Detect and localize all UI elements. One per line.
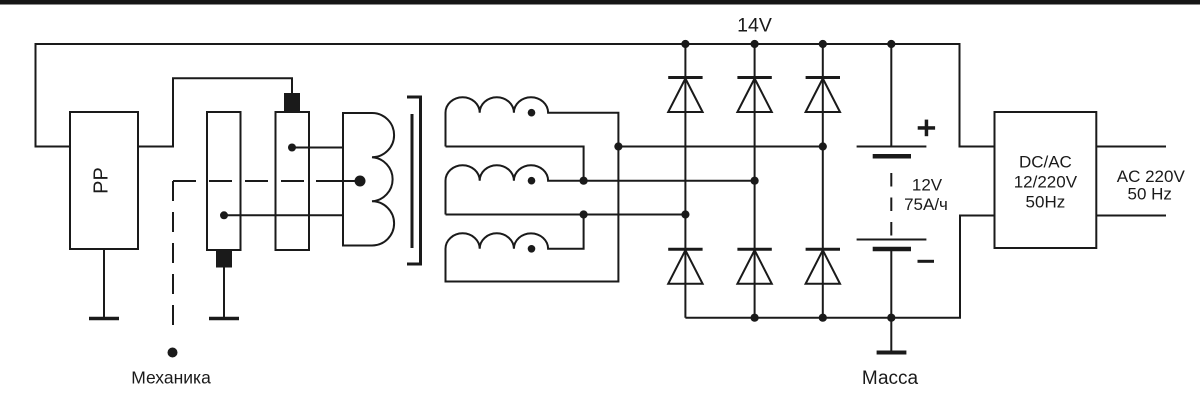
svg-text:50Hz: 50Hz	[1026, 192, 1066, 211]
wire brush B1 to ground	[223, 267, 225, 318]
minus sign	[918, 260, 935, 263]
svg-text:Масса: Масса	[862, 368, 919, 389]
diode VD4 lower	[668, 248, 702, 251]
wire AC output top	[1096, 146, 1166, 148]
wire rectifier column 2	[754, 44, 756, 318]
node L1 polarity dot	[528, 109, 536, 117]
core bar	[411, 114, 414, 248]
rotor field winding	[343, 113, 394, 246]
battery GB1 cell1 plate short	[873, 154, 911, 159]
svg-text:12/220V: 12/220V	[1014, 172, 1078, 191]
brush B1 bottom	[217, 250, 231, 267]
plus sign	[918, 120, 935, 137]
node mechanics dot	[168, 348, 178, 358]
diode VD3 upper	[806, 76, 840, 79]
node top rail battery	[887, 40, 895, 48]
diode VD5 lower	[737, 248, 771, 251]
node bottom rail battery	[887, 314, 895, 322]
battery GB1 cell2 plate long	[857, 239, 927, 241]
node top rail col1	[681, 40, 689, 48]
node bottom rail col2	[751, 314, 759, 322]
stator winding L2 with phase 2 line	[446, 165, 755, 214]
wire AC output bottom	[1096, 215, 1166, 217]
svg-text:75А/ч: 75А/ч	[904, 195, 948, 214]
node phase3 to col1	[681, 210, 689, 218]
core bracket	[407, 97, 421, 264]
wire rotor axis stub	[316, 180, 356, 182]
node phase1 to col3	[819, 142, 827, 150]
node slip ring 2 terminal	[288, 144, 296, 152]
node phase2 to col2	[751, 177, 759, 185]
border strip top	[0, 0, 1200, 5]
node L3 polarity dot	[528, 245, 536, 253]
svg-text:14V: 14V	[737, 15, 772, 37]
node rotor axis dot	[355, 176, 366, 187]
svg-text:AC 220V: AC 220V	[1117, 167, 1186, 186]
wire battery to chassis ground	[890, 318, 892, 351]
regulator box PP	[70, 112, 138, 249]
battery GB1 cell2 plate short	[873, 247, 911, 252]
svg-text:50 Hz: 50 Hz	[1127, 184, 1171, 203]
wire bottom rail	[685, 216, 994, 318]
node top rail col3	[819, 40, 827, 48]
ground Massa bar	[877, 351, 907, 355]
wire phase 3 line	[446, 214, 686, 216]
node bottom rail col3	[819, 314, 827, 322]
battery GB1 cell1 plate long	[857, 146, 927, 148]
diode VD1 upper	[668, 76, 702, 79]
node top rail col2	[751, 40, 759, 48]
svg-text:DC/AC: DC/AC	[1019, 152, 1072, 171]
wire PP to upper brush	[138, 78, 292, 146]
mechanical link dashed horizontal	[173, 180, 309, 182]
svg-text:12V: 12V	[912, 176, 943, 195]
wire slip ring 1 to rotor coil	[224, 214, 343, 216]
svg-text:РР: РР	[91, 167, 113, 194]
node slip ring 1 terminal	[220, 211, 228, 219]
wire rectifier column 1	[684, 44, 686, 318]
battery inter-cell dashed	[890, 173, 892, 240]
wire slip ring 2 to rotor coil	[292, 147, 343, 149]
ground brush B1	[209, 317, 239, 321]
wire battery top	[890, 44, 892, 147]
node phase3 junction	[580, 210, 588, 218]
wire rectifier column 3	[822, 44, 824, 318]
inverter box DC/AC	[995, 112, 1097, 248]
wire L1 bottom to phase2 junction	[446, 147, 584, 181]
slip ring 2	[276, 112, 310, 250]
node phase2 junction	[580, 177, 588, 185]
node L2 polarity dot	[528, 177, 536, 185]
wire battery bottom	[890, 251, 892, 318]
node phase1 junction	[614, 142, 622, 150]
wire top rail from regulator to inverter	[36, 44, 995, 147]
slip ring 1	[207, 112, 241, 250]
wire PP to ground	[103, 249, 105, 317]
diode VD6 lower	[806, 248, 840, 251]
diode VD2 upper	[737, 76, 771, 79]
mechanical link dashed vertical	[172, 181, 174, 332]
stator winding L1 and L3 loop	[446, 97, 619, 281]
wire phase 1 line	[618, 146, 822, 148]
ground PP	[89, 317, 119, 321]
svg-text:Механика: Механика	[131, 368, 211, 388]
brush B2 top	[285, 94, 299, 112]
